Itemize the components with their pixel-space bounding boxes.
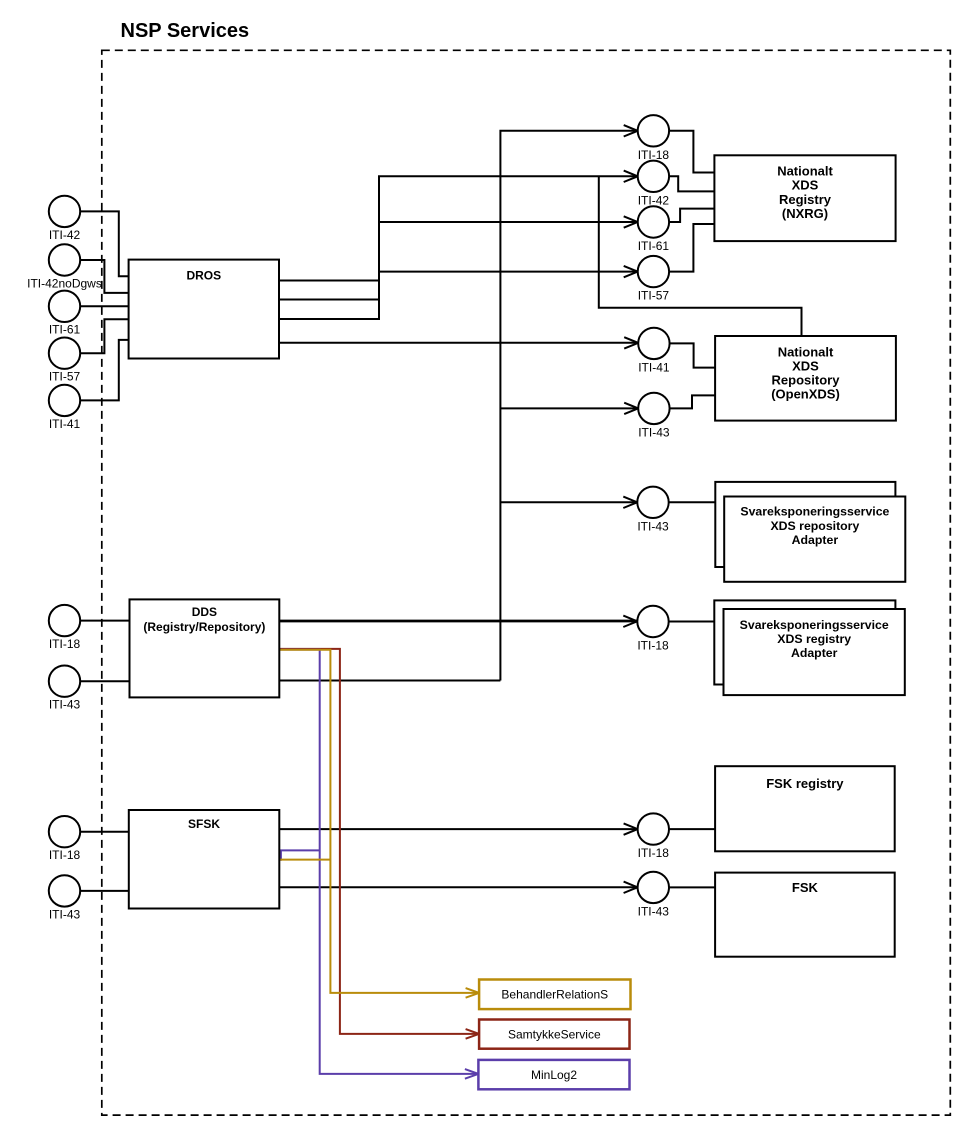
wire SFSK to BehandlerRelationS branch (gold) <box>279 859 330 861</box>
wire SFSK to ITI-18 of FSK registry <box>279 828 637 830</box>
svg-text:SFSK: SFSK <box>188 817 220 831</box>
wire ITI-18 lollipop tail into NXRG <box>669 131 714 173</box>
svg-text:XDS: XDS <box>792 178 819 193</box>
svg-text:NSP Services: NSP Services <box>121 20 250 42</box>
wire ITI-18 lollipop tail into registry adapter <box>669 621 715 623</box>
box Nationalt XDS Repository (OpenXDS) <box>715 336 896 421</box>
svg-text:Nationalt: Nationalt <box>778 345 834 360</box>
svg-text:ITI-42: ITI-42 <box>638 193 670 207</box>
interface circle ITI-57 (NXRG) <box>638 256 669 287</box>
interface circle ITI-43 (FSK) <box>638 872 669 903</box>
box Svareksponeringsservice XDS registry Adapter (front) <box>724 609 905 695</box>
wire ITI-43 (left) to SFSK <box>80 890 129 892</box>
arrowhead to ITI-18 NXRG <box>624 125 638 136</box>
wire DROS to ITI-57 of NXRG <box>279 272 637 319</box>
box DROS <box>129 260 279 359</box>
wire ITI-41 lollipop tail into OpenXDS <box>670 343 716 367</box>
arrowhead to ITI-18 adapter <box>623 616 637 627</box>
svg-text:Svareksponeringsservice: Svareksponeringsservice <box>740 505 889 519</box>
svg-text:FSK registry: FSK registry <box>766 776 844 791</box>
wire vertical bus from DDS up to ITI-18 of NXRG <box>500 131 637 681</box>
arrowhead to ITI-42 NXRG <box>624 171 638 182</box>
svg-text:BehandlerRelationS: BehandlerRelationS <box>501 988 608 1002</box>
svg-text:Adapter: Adapter <box>792 533 839 547</box>
interface circle ITI-57 (left) <box>49 338 80 369</box>
svg-text:FSK: FSK <box>792 880 819 895</box>
svg-text:ITI-57: ITI-57 <box>49 370 81 384</box>
svg-text:Svareksponeringsservice: Svareksponeringsservice <box>740 618 889 632</box>
svg-text:SamtykkeService: SamtykkeService <box>508 1027 601 1041</box>
wire ITI-41 (left) to DROS <box>80 340 128 401</box>
interface circle ITI-18 (left, DDS) <box>49 605 80 636</box>
wire ITI-43 lollipop tail into repository adapter <box>669 501 716 503</box>
wire bus branch to ITI-43 of repository adapter <box>500 501 637 503</box>
arrowhead to ITI-43 FSK <box>624 882 638 893</box>
wire ITI-61 (left) to DROS <box>80 305 128 307</box>
arrowhead to ITI-57 NXRG <box>624 266 638 277</box>
interface circle ITI-41 (left) <box>49 385 80 416</box>
svg-text:ITI-18: ITI-18 <box>637 639 669 653</box>
interface circle ITI-43 (left, DDS) <box>49 666 80 697</box>
wire ITI-57 (left) to DROS <box>80 319 128 353</box>
wire ITI-43 (left) to DDS <box>80 680 130 682</box>
svg-text:ITI-43: ITI-43 <box>638 904 670 918</box>
svg-text:MinLog2: MinLog2 <box>531 1068 577 1082</box>
wire SFSK to MinLog2 branch (purple) <box>279 850 319 859</box>
wire DDS to MinLog2 (purple) <box>280 650 478 1079</box>
wire branch from ITI-42 line down to OpenXDS top <box>599 176 802 337</box>
wire ITI-42noDgws to DROS <box>80 260 128 293</box>
box DDS (Registry/Repository) <box>130 599 280 697</box>
svg-text:ITI-18: ITI-18 <box>49 637 81 651</box>
interface circle ITI-43 (left, SFSK) <box>49 875 80 906</box>
wire DROS to ITI-41 of OpenXDS <box>279 342 638 344</box>
svg-text:ITI-41: ITI-41 <box>638 360 670 374</box>
svg-text:ITI-61: ITI-61 <box>49 323 81 337</box>
interface circle ITI-18 (left, SFSK) <box>49 816 80 847</box>
interface circle ITI-42noDgws (left) <box>49 244 80 275</box>
box Svareksponeringsservice XDS registry Adapter (back) <box>714 600 895 684</box>
wire SFSK to ITI-43 of FSK <box>279 886 637 888</box>
svg-text:Nationalt: Nationalt <box>777 164 833 179</box>
wire ITI-18 (left) to SFSK <box>80 831 129 833</box>
svg-text:DDS: DDS <box>192 605 217 619</box>
interface circle ITI-18 (FSK registry) <box>638 813 669 844</box>
wire DROS to ITI-42 of NXRG <box>279 176 637 280</box>
svg-text:XDS: XDS <box>792 359 819 374</box>
wire DDS to ITI-18 of registry adapter <box>279 620 637 623</box>
svg-text:ITI-43: ITI-43 <box>49 698 81 712</box>
svg-text:ITI-42: ITI-42 <box>49 228 81 242</box>
interface circle ITI-41 (OpenXDS) <box>638 328 669 359</box>
arrowhead to ITI-61 NXRG <box>624 216 638 227</box>
box MinLog2 <box>478 1060 629 1089</box>
svg-text:ITI-43: ITI-43 <box>49 907 81 921</box>
box Nationalt XDS Registry (NXRG) <box>714 155 895 241</box>
wire ITI-42 (left) to DROS <box>80 211 128 276</box>
interface circle ITI-18 (registry adapter) <box>637 606 668 637</box>
wire DDS ITI-43 output to bus <box>279 680 500 682</box>
interface circle ITI-42 (left) <box>49 196 80 227</box>
svg-text:ITI-61: ITI-61 <box>638 239 670 253</box>
box Svareksponeringsservice XDS repository Adapter (back) <box>715 482 895 567</box>
box SamtykkeService <box>479 1020 629 1049</box>
svg-text:(OpenXDS): (OpenXDS) <box>771 386 840 401</box>
svg-text:DROS: DROS <box>186 269 221 283</box>
svg-text:XDS repository: XDS repository <box>770 519 859 533</box>
svg-text:Adapter: Adapter <box>791 646 838 660</box>
wire ITI-43 lollipop tail into OpenXDS <box>670 395 716 408</box>
interface circle ITI-61 (left) <box>49 291 80 322</box>
wire ITI-43 lollipop tail into FSK <box>669 886 715 888</box>
arrowhead to ITI-41 OpenXDS <box>624 337 638 348</box>
arrowhead to ITI-18 FSK registry <box>624 823 638 834</box>
svg-text:ITI-42noDgws: ITI-42noDgws <box>27 276 102 290</box>
wire ITI-57 lollipop tail into NXRG <box>669 224 714 272</box>
wire DROS to ITI-61 of NXRG <box>279 222 637 300</box>
svg-text:Repository: Repository <box>772 373 841 388</box>
svg-text:ITI-43: ITI-43 <box>637 519 669 533</box>
wire ITI-18 lollipop tail into FSK registry <box>669 828 715 830</box>
arrowhead to ITI-43 adapter <box>623 497 637 508</box>
svg-text:ITI-41: ITI-41 <box>49 417 81 431</box>
box SFSK <box>129 810 279 909</box>
svg-text:ITI-57: ITI-57 <box>638 289 670 303</box>
box FSK <box>715 873 895 957</box>
box Svareksponeringsservice XDS repository Adapter (front) <box>724 497 905 582</box>
svg-text:ITI-18: ITI-18 <box>638 148 670 162</box>
interface circle ITI-18 (NXRG) <box>638 115 669 146</box>
arrowhead to ITI-43 OpenXDS <box>624 403 638 414</box>
wire ITI-61 lollipop tail into NXRG <box>669 209 714 222</box>
box FSK registry <box>715 766 895 851</box>
wire DDS to SamtykkeService (red) <box>280 649 479 1039</box>
wire ITI-42 lollipop tail into NXRG <box>669 176 714 191</box>
interface circle ITI-43 (OpenXDS) <box>638 393 669 424</box>
wire ITI-18 (left) to DDS <box>80 620 130 622</box>
interface circle ITI-61 (NXRG) <box>638 206 669 237</box>
interface circle ITI-42 (NXRG) <box>638 161 669 192</box>
svg-text:(Registry/Repository): (Registry/Repository) <box>143 620 265 634</box>
box BehandlerRelationS <box>479 980 630 1010</box>
svg-text:ITI-18: ITI-18 <box>49 848 81 862</box>
wire DDS to BehandlerRelationS (gold) <box>280 650 479 998</box>
svg-text:Registry: Registry <box>779 192 832 207</box>
wire bus branch to ITI-43 of OpenXDS <box>500 407 638 409</box>
svg-text:XDS registry: XDS registry <box>777 632 851 646</box>
svg-text:ITI-43: ITI-43 <box>638 425 670 439</box>
interface circle ITI-43 (repository adapter) <box>637 487 668 518</box>
svg-text:ITI-18: ITI-18 <box>638 846 670 860</box>
svg-text:(NXRG): (NXRG) <box>782 206 828 221</box>
